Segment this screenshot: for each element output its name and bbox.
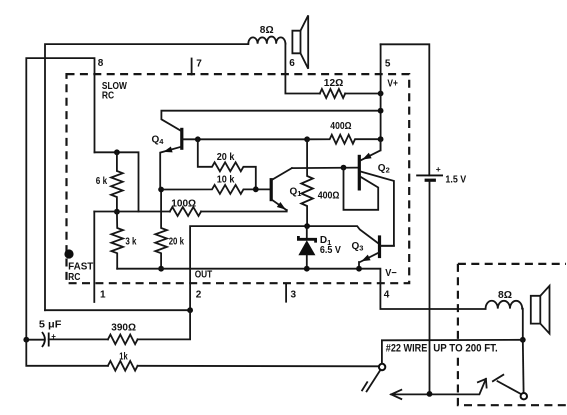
svg-text:4: 4: [384, 289, 390, 300]
junction: 20k-h / 10k / Q1 base: [253, 186, 259, 192]
arrowhead up-right (open): [478, 379, 487, 388]
Q4 bar: [180, 128, 183, 150]
svg-text:1k: 1k: [119, 352, 128, 363]
party line wire with arrows (to other stations): [391, 379, 486, 395]
svg-text:Q2: Q2: [378, 163, 390, 175]
wire: 12 ohm to V+ node: [345, 93, 380, 95]
svg-text:6 k: 6 k: [96, 176, 108, 187]
junction: battery minus to party line: [427, 391, 433, 397]
junction: Q4 base / 20k-h riser: [195, 136, 201, 142]
svg-text:+: +: [51, 332, 56, 341]
zener diode D1 6.5V: [298, 226, 341, 272]
svg-text:6.5 V: 6.5 V: [320, 245, 341, 256]
svg-text:Q3: Q3: [352, 241, 364, 253]
label FAST RC and dot: [64, 249, 73, 258]
resistor 400 ohm vertical: [301, 139, 313, 226]
transistor Q4: [152, 108, 384, 190]
resistor 20k vertical: [155, 190, 167, 269]
resistor 10k: [161, 185, 270, 194]
svg-text:5: 5: [385, 58, 391, 69]
key S2 lever and knob: [498, 381, 521, 393]
junction: 20k-v bottom on OUT rail: [158, 266, 164, 272]
wire: pin 2 riser and rail to Q3 collector: [190, 226, 379, 310]
Q4 base wire to right: [183, 138, 308, 140]
key S1 contact circle: [379, 364, 385, 370]
svg-text:20 k: 20 k: [217, 152, 235, 163]
svg-text:8Ω: 8Ω: [498, 290, 512, 301]
svg-text:400Ω: 400Ω: [330, 121, 351, 132]
Q3 bar: [378, 235, 381, 258]
transistor Q3: [352, 235, 394, 271]
Q2 bar: [358, 155, 361, 191]
arrowhead left (open): [391, 390, 401, 399]
svg-text:V+: V+: [387, 79, 398, 90]
inductor L1 voice coil 8 ohm (top speaker): [248, 37, 285, 44]
capacitor C1 5uF: [26, 320, 108, 348]
transistor Q1: [271, 168, 301, 210]
Q3 base from right riser: [381, 245, 394, 247]
wire: bottom-left OUT node horizontal: [45, 309, 190, 311]
battery B1 1.5V: [416, 164, 466, 185]
junction: 6k bottom node: [114, 209, 120, 215]
Q2 collector 2 fold-back loop to base: [344, 168, 379, 210]
svg-text:8Ω: 8Ω: [260, 25, 274, 36]
junction: D1 bottom on rail: [304, 266, 310, 272]
svg-text:#22 WIRE: #22 WIRE: [386, 343, 428, 355]
svg-text:20 k: 20 k: [169, 236, 185, 247]
junction: 6k top: [114, 149, 120, 155]
inductor L2 voice coil 8 ohm (bottom speaker): [486, 301, 523, 309]
wire: return conductor to key1 upper contact: [382, 340, 523, 364]
wire: pin 6 drop from coil to 12 ohm: [285, 44, 319, 94]
wire: 100 ohm to Q1 emitter corner: [201, 210, 287, 212]
junction: Q2 fold-back on base wire: [341, 165, 347, 171]
junction: 12 ohm / pin5 riser: [378, 91, 384, 97]
junction: cap to outer-left riser: [23, 337, 29, 343]
Q2 emitter from V+ with arrow: [361, 139, 381, 160]
wire: internal bottom rail y=268.7: [117, 269, 485, 309]
svg-text:390Ω: 390Ω: [111, 323, 136, 334]
wire: coil to junction: [521, 309, 524, 340]
wire: pin 1 drop: [93, 212, 95, 303]
label #22 WIRE UP TO 200 FT.: [454, 342, 463, 354]
wire: node row y=211.5 (pin1 bend to Q1 emitter corner): [94, 211, 170, 213]
wire: Q1 collector to Q2 base: [292, 167, 359, 170]
wire: pin2 node down to 390 row: [138, 310, 191, 339]
wire: top right to battery: [381, 44, 430, 175]
resistor 6k: [111, 152, 123, 211]
wire: top rail from outer-left riser to speaker coil: [45, 44, 248, 310]
junction: top 400 rail at 400v: [304, 136, 310, 142]
junction: pin2 / 390 / out: [187, 307, 193, 313]
svg-text:V−: V−: [385, 268, 397, 279]
svg-text:Q4: Q4: [152, 134, 165, 146]
resistor 390 ohm: [108, 335, 138, 345]
svg-text:5 μF: 5 μF: [39, 320, 62, 331]
svg-text:2: 2: [196, 289, 202, 300]
pin 7 stub: [191, 59, 193, 75]
Q1 collector diagonal: [272, 168, 292, 180]
speaker SP2 (bottom): [531, 286, 550, 334]
Q1 emitter with arrow: [272, 200, 287, 210]
resistor 20k horizontal: [198, 139, 256, 189]
svg-text:1: 1: [100, 289, 106, 300]
junction: 20k-v top / Q4 emitter / 10k: [158, 187, 164, 193]
pin 3 stub: [285, 284, 287, 302]
junction: D1 top / 400v bottom / pin2 rail: [304, 223, 310, 229]
svg-text:3: 3: [291, 289, 297, 300]
svg-text:100Ω: 100Ω: [171, 198, 196, 209]
resistor 3k: [111, 212, 123, 269]
svg-text:OUT: OUT: [195, 269, 213, 280]
wire: outer-left down to 1k row: [26, 340, 108, 366]
Q4 collector to top rail: [161, 111, 380, 131]
wire: pin8 horizontal to riser: [95, 152, 139, 211]
junction: 400 top at V+: [378, 136, 384, 142]
transistor Q2: [344, 139, 394, 246]
svg-text:10 k: 10 k: [217, 175, 235, 186]
svg-text:12Ω: 12Ω: [324, 78, 344, 89]
wire: pin 5 riser V+ vertical: [380, 44, 382, 150]
resistor 400 ohm top: [307, 135, 381, 144]
junction: collector rail at V+: [378, 108, 384, 114]
key S1 lever and knob: [367, 371, 380, 392]
remote station dashed box: [458, 264, 566, 405]
wire: junction down to key2 contact: [522, 340, 525, 393]
wire: battery minus down to party line: [429, 180, 431, 394]
resistor 1k: [108, 361, 138, 371]
svg-text:RC: RC: [68, 272, 80, 283]
speaker SP1 (top): [292, 15, 308, 68]
svg-text:UP TO 200 FT.: UP TO 200 FT.: [433, 343, 497, 355]
Q3 emitter with arrow: [359, 253, 379, 269]
svg-text:3 k: 3 k: [125, 236, 136, 247]
wire: 1k to key 1 contact: [138, 365, 379, 368]
key S2 contact circle: [521, 393, 527, 399]
resistor 12 ohm: [320, 89, 345, 98]
svg-text:+: +: [436, 164, 441, 174]
junction: Q3 emitter on rail: [356, 266, 362, 272]
Q1 bar: [270, 178, 273, 201]
svg-text:7: 7: [196, 58, 202, 69]
svg-text:1.5 V: 1.5 V: [445, 174, 466, 185]
svg-text:RC: RC: [102, 91, 114, 102]
svg-text:Q1: Q1: [290, 186, 302, 198]
resistor 100 ohm: [170, 207, 201, 216]
svg-text:FAST: FAST: [68, 262, 93, 273]
svg-text:400Ω: 400Ω: [318, 191, 340, 202]
svg-text:6: 6: [289, 58, 295, 69]
wire: outer-left loop (pin 8 net top): [26, 58, 94, 340]
junction: speaker return / key2: [520, 337, 526, 343]
Q4 emitter with arrow: [160, 147, 181, 190]
Q2 collector 1 to Q3 base riser: [361, 172, 394, 246]
svg-text:8: 8: [98, 58, 104, 69]
IC dashed outline: [67, 74, 410, 283]
